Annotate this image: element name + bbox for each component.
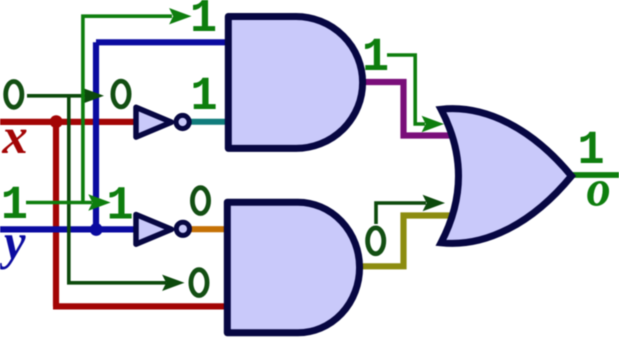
or-gate U3 <box>441 109 572 244</box>
arrow AND1 out to OR <box>422 116 444 132</box>
not-gate U4 triangle top <box>136 107 172 137</box>
svg-text:1: 1 <box>190 0 217 45</box>
arrow y to AND1 <box>169 8 191 24</box>
svg-text:y: y <box>0 214 27 270</box>
label value 0 at AND2 input <box>191 270 207 296</box>
label value 0 at AND2 output <box>368 228 384 254</box>
annotation AND1 out value line <box>387 55 425 124</box>
annotation y-tree branch up to AND1 <box>83 16 172 202</box>
wire noty orange from NOT2 to AND2 <box>190 226 227 232</box>
wire x bottom horizontal to AND2 <box>53 303 227 309</box>
svg-text:1: 1 <box>106 180 133 233</box>
not-gate U4 bubble <box>176 115 189 128</box>
wire x input horizontal <box>0 119 135 125</box>
not-gate U5 triangle bottom <box>136 215 172 245</box>
annotation y-tree line 1 to NOT2 <box>26 201 92 205</box>
not-gate U5 bubble <box>176 222 189 235</box>
arrow x to AND2 <box>162 275 184 291</box>
annotation x-tree line 0 to NOT1 <box>27 94 86 98</box>
arrow x to NOT1 <box>82 88 104 104</box>
wire purple AND1 output to OR <box>361 82 458 136</box>
wire olive AND2 output to OR <box>358 216 456 267</box>
node junction x <box>50 115 63 128</box>
wire o output green <box>572 172 619 178</box>
and-gate U1 top <box>228 17 362 149</box>
wire y top horizontal to AND1 <box>96 39 230 45</box>
wire y vertical branch <box>93 42 99 229</box>
svg-text:x: x <box>1 108 27 164</box>
wire x vertical branch <box>53 122 59 307</box>
and-gate U2 bottom <box>227 202 359 333</box>
annotation x-tree branch down to AND2 <box>69 96 166 283</box>
svg-text:1: 1 <box>190 70 217 123</box>
label value 0 at NOT1 input <box>113 81 129 107</box>
svg-text:o: o <box>586 159 610 217</box>
node junction y <box>90 223 103 236</box>
annotation AND2 out value line <box>376 203 426 224</box>
svg-text:1: 1 <box>362 31 389 84</box>
wire notx teal from NOT1 to AND1 <box>190 119 230 125</box>
arrow AND2 out to OR <box>423 195 445 211</box>
label value 0 at NOT2 output <box>192 188 208 214</box>
label value 0 at x source <box>6 82 22 108</box>
arrow y to NOT2 <box>88 194 110 210</box>
wire y input horizontal <box>0 226 135 232</box>
